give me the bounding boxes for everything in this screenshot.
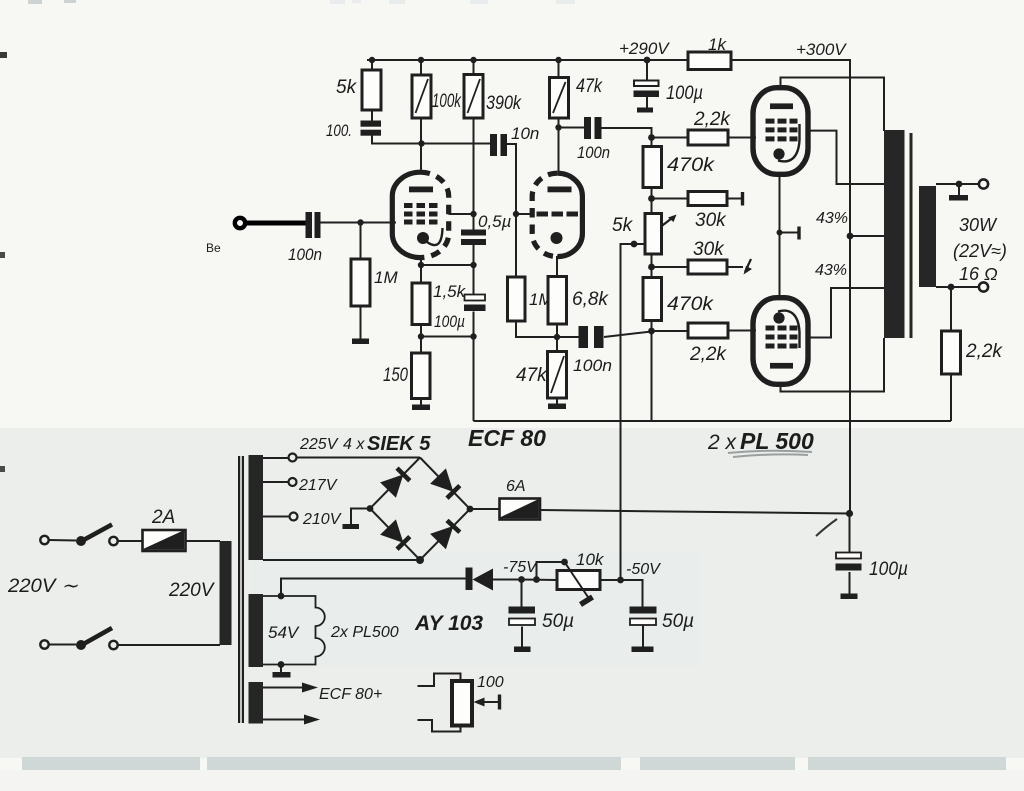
wire 100u1 bottom down to ground bus bbox=[473, 312, 475, 422]
wire hum pot bottom lead bbox=[418, 720, 461, 732]
wire bridge left to chassis bbox=[351, 509, 370, 525]
wire PL500 V4 anode to transformer bottom bbox=[781, 338, 885, 392]
ground 1M input bbox=[352, 339, 369, 345]
node grid V1 bbox=[357, 219, 363, 225]
node chain 30k1 bbox=[648, 195, 655, 202]
potentiometer 100 hum balance bbox=[452, 674, 504, 726]
wire PL500 V4 screen tap 43% bbox=[808, 288, 884, 338]
scan cut-off fragments top edge bbox=[28, 0, 575, 4]
svg-text:30k: 30k bbox=[695, 210, 727, 231]
svg-text:100µ: 100µ bbox=[666, 83, 703, 104]
transformer T1 core bbox=[238, 456, 244, 723]
wire secondary bottom to terminal bbox=[936, 286, 979, 288]
capacitor 100n input bbox=[288, 212, 322, 264]
wire heater lead 2 bbox=[263, 719, 304, 721]
wire 1k to +300V corner down to screen line bbox=[731, 60, 850, 514]
transformer T2 core bbox=[910, 133, 913, 338]
wire mains to switch S2 bbox=[49, 644, 76, 646]
svg-text:100: 100 bbox=[477, 674, 504, 691]
wire V1 grid right to 390k node bbox=[449, 213, 474, 215]
wire S1 to fuse 2A bbox=[118, 540, 143, 542]
capacitor 0,5u bbox=[461, 212, 512, 245]
diode AY103 bbox=[414, 568, 493, 636]
node V1 anode junction bbox=[418, 140, 424, 146]
wire 390k bottom to grid node and 0,5u bbox=[473, 118, 475, 230]
arrow heater 2 bbox=[304, 715, 320, 725]
wire AY103 to -75V node bbox=[493, 579, 521, 581]
ground bridge left bbox=[343, 524, 360, 529]
wire 2,2k bottom to PL500 V4 grid bbox=[728, 330, 756, 332]
ground 54V winding bbox=[273, 672, 291, 678]
wire V1 cathode to 0,5u bottom bbox=[421, 264, 474, 266]
transformer T2 output primary bbox=[884, 130, 905, 338]
svg-text:6,8k: 6,8k bbox=[572, 289, 609, 310]
wire feedback bus bbox=[474, 420, 952, 422]
svg-text:50µ: 50µ bbox=[662, 611, 694, 632]
svg-text:Be: Be bbox=[206, 241, 221, 255]
capacitor 100u cathode bypass bbox=[434, 295, 486, 332]
node cathode junctions bbox=[418, 262, 477, 340]
svg-text:2,2k: 2,2k bbox=[693, 109, 731, 130]
wire 54V bottom ground stub bbox=[280, 665, 282, 673]
capacitor 100u supply electrolytic bbox=[634, 81, 704, 113]
wire PL500 V3 anode to transformer top bbox=[781, 78, 885, 132]
wire 100k stem bbox=[420, 60, 422, 75]
svg-text:47k: 47k bbox=[516, 365, 548, 386]
svg-text:100.: 100. bbox=[326, 121, 352, 140]
tube V4 PL500 lower bbox=[753, 298, 808, 385]
resistor 2,2k grid V3 bbox=[688, 109, 731, 145]
potentiometer 5k balance bbox=[612, 214, 677, 255]
resistor 30k lower bbox=[688, 239, 752, 275]
svg-text:6A: 6A bbox=[506, 478, 526, 495]
svg-text:217V: 217V bbox=[298, 477, 338, 494]
svg-text:ECF 80+: ECF 80+ bbox=[319, 686, 382, 703]
wire 1M2 bottom to junction bbox=[516, 321, 557, 337]
node chain bottom bbox=[648, 328, 655, 335]
tube V3 PL500 upper bbox=[753, 88, 808, 175]
node +290V bbox=[619, 39, 670, 63]
switch S2 mains lower bbox=[40, 628, 117, 650]
node bridge corners bbox=[367, 505, 474, 564]
wire splitter chain vertical segments bbox=[651, 188, 653, 214]
svg-text:+300V: +300V bbox=[796, 40, 847, 59]
diode D3 left-bottom arm bbox=[380, 519, 403, 543]
tube V2 ECF80 triode section bbox=[532, 173, 582, 256]
wire 47k2 to ground bar bbox=[556, 398, 558, 404]
svg-text:43%: 43% bbox=[816, 210, 848, 227]
svg-text:30W: 30W bbox=[959, 215, 998, 235]
terminal output bottom bbox=[979, 282, 988, 291]
resistor 2,2k feedback bbox=[942, 331, 1004, 374]
wire 1M input stem bbox=[360, 223, 362, 260]
wire 150 to ground bar bbox=[420, 399, 422, 405]
wire V1 cathode down bbox=[420, 258, 422, 284]
wire PL500 V3 screen tap 43% bbox=[808, 131, 884, 184]
svg-text:390k: 390k bbox=[486, 93, 522, 114]
svg-text:4 x: 4 x bbox=[343, 436, 365, 453]
svg-text:43%: 43% bbox=[815, 262, 847, 279]
ground 150 bbox=[412, 405, 430, 411]
capacitor 100u boost bbox=[836, 553, 909, 600]
fuse 2A bbox=[143, 507, 186, 551]
wire input coupling to V1 grid bbox=[321, 222, 397, 224]
diode D1 left-top arm bbox=[380, 474, 403, 497]
wire hum pot wiper tail bbox=[483, 701, 499, 703]
node rail junctions bbox=[369, 57, 562, 63]
wire 390k stem bbox=[473, 60, 475, 75]
wire chain node to 2,2k top bbox=[652, 137, 689, 139]
wire V2 cathode to 6,8k bbox=[556, 256, 558, 277]
wire PL500 common cathodes bbox=[779, 174, 781, 298]
svg-text:1M: 1M bbox=[374, 268, 398, 287]
svg-text:2x PL500: 2x PL500 bbox=[330, 624, 399, 641]
capacitor 10n bbox=[490, 124, 539, 156]
wire 30k1 end tick lead bbox=[727, 198, 741, 200]
resistor 5k bbox=[336, 70, 381, 110]
wire secondary ground stub bbox=[958, 184, 960, 195]
pen mark annotation bbox=[816, 519, 837, 536]
wire 2,2k fb to feedback bus bbox=[950, 374, 952, 421]
capacitor 100n feedback lower bbox=[573, 326, 612, 375]
wire V2 anode stem bbox=[558, 171, 559, 173]
svg-text:1,5k: 1,5k bbox=[433, 282, 467, 301]
wire 100 cap to anode node line bbox=[372, 136, 490, 144]
node +300V centre tap bbox=[847, 233, 854, 240]
wire cathode ground tee bbox=[780, 232, 798, 234]
svg-text:2,2k: 2,2k bbox=[965, 341, 1003, 362]
node 390k grid junction bbox=[470, 211, 476, 217]
svg-text:+290V: +290V bbox=[619, 39, 670, 58]
svg-text:2 x: 2 x bbox=[707, 431, 738, 454]
input terminal Be bbox=[206, 218, 306, 255]
wire 30k2 end lead bbox=[727, 266, 743, 268]
transformer T1 54V winding bbox=[249, 593, 325, 668]
wire +290V top rail bbox=[367, 59, 688, 61]
resistor 100k bbox=[412, 75, 462, 118]
wire 54V top to AY103 bbox=[281, 579, 466, 597]
wire 100k bottom to V1 anode bbox=[420, 118, 422, 172]
svg-text:SIEK 5: SIEK 5 bbox=[367, 433, 431, 455]
svg-text:210V: 210V bbox=[302, 511, 342, 528]
wire -75V node to 10k left bbox=[521, 579, 557, 582]
terminal 210V bbox=[290, 511, 342, 528]
wire 225V to bridge top bbox=[297, 457, 421, 459]
resistor 390k bbox=[464, 75, 522, 119]
svg-text:5k: 5k bbox=[336, 77, 358, 98]
wire heater lead 1 bbox=[263, 687, 302, 689]
wire chain node to 30k2 bbox=[652, 266, 689, 268]
wire 0,5u bottom segment bbox=[473, 245, 475, 295]
fuse 6A bbox=[500, 478, 541, 520]
svg-text:100µ: 100µ bbox=[869, 559, 908, 580]
wire 1,5k bottom junction row bbox=[420, 325, 422, 354]
wire 6,8k bottom junction bbox=[556, 324, 558, 352]
wire +300V centre tap bbox=[850, 235, 884, 237]
svg-text:5k: 5k bbox=[612, 215, 634, 236]
tube V1 ECF80 pentode section bbox=[392, 172, 448, 257]
wire fuse 2A to primary bbox=[186, 540, 221, 542]
diode D2 top-right arm bbox=[430, 468, 453, 492]
wire 10k right to -50V node bbox=[600, 580, 643, 607]
node 6,8k bottom junction bbox=[554, 334, 560, 340]
wire 100n2 to splitter chain bbox=[604, 332, 652, 338]
node chain 30k2 bbox=[648, 264, 655, 271]
svg-text:2,2k: 2,2k bbox=[689, 344, 727, 365]
svg-text:220V ∼: 220V ∼ bbox=[7, 576, 78, 597]
wire 10k wiper strap bbox=[537, 562, 565, 580]
wire S2 to primary bottom bbox=[118, 644, 221, 646]
wire secondary top to output terminal bbox=[936, 183, 979, 185]
svg-text:1k: 1k bbox=[708, 35, 727, 54]
wire 16ohm node to 2,2k fb bbox=[950, 287, 952, 331]
transformer T2 secondary bbox=[919, 186, 936, 287]
diode D4 bottom-right arm bbox=[430, 526, 453, 549]
transformer T1 primary winding bbox=[168, 541, 232, 645]
switch S1 mains upper bbox=[40, 525, 117, 547]
wire 2,2k top to PL500 V3 grid bbox=[728, 137, 756, 139]
rectifier bridge 4x SIEK5 bbox=[370, 458, 470, 561]
wire 225V tap bbox=[263, 457, 288, 459]
wire +290V node stem to 100u bbox=[646, 60, 648, 81]
svg-text:54V: 54V bbox=[268, 623, 300, 642]
resistor 47k anode V2 bbox=[550, 76, 604, 118]
svg-text:2A: 2A bbox=[151, 507, 175, 528]
svg-text:225V: 225V bbox=[299, 436, 339, 453]
terminal 217V bbox=[289, 477, 338, 494]
wire reservoir node to 100u2 bbox=[849, 514, 851, 553]
svg-text:470k: 470k bbox=[667, 155, 716, 176]
wire 210V tap bbox=[263, 516, 290, 518]
svg-text:16 Ω: 16 Ω bbox=[959, 264, 998, 284]
resistor 1,5k cathode bbox=[412, 282, 467, 325]
svg-text:100k: 100k bbox=[432, 91, 462, 112]
svg-text:50µ: 50µ bbox=[542, 611, 574, 632]
svg-text:220V: 220V bbox=[168, 580, 216, 601]
svg-text:100µ: 100µ bbox=[434, 312, 465, 331]
label 2 x PL 500 bbox=[707, 428, 814, 457]
svg-text:47k: 47k bbox=[576, 76, 603, 97]
wire bridge bottom to hv winding bbox=[263, 559, 420, 561]
resistor 47k V2 cathode lower bbox=[516, 352, 567, 399]
wire 47k bottom to V2 anode bbox=[558, 118, 560, 172]
transformer T1 HV secondary bbox=[249, 455, 264, 560]
wires/ink style bbox=[321, 60, 851, 514]
scan edge marks left border bbox=[0, 52, 7, 472]
wire 10n right to V2 grid line bbox=[507, 144, 516, 277]
svg-text:30k: 30k bbox=[693, 239, 725, 260]
capacitor 50u bias 1 bbox=[509, 607, 575, 653]
svg-text:-75V: -75V bbox=[503, 559, 538, 576]
ground 47k bbox=[548, 404, 566, 410]
node V2 grid junction bbox=[513, 211, 519, 217]
resistor 470k lower bbox=[643, 278, 715, 321]
wire 6A line to reservoir node bbox=[540, 510, 850, 514]
resistor 30k upper bbox=[688, 192, 743, 232]
wire chain node to 2,2k bottom bbox=[652, 330, 689, 332]
wire 100n to splitter chain bbox=[602, 128, 652, 147]
svg-text:100n: 100n bbox=[577, 143, 610, 162]
svg-text:10n: 10n bbox=[511, 124, 539, 143]
resistor 470k upper bbox=[643, 147, 716, 188]
wire 5k pot wiper to bias line bbox=[621, 244, 646, 580]
wire 217V tap bbox=[263, 481, 288, 483]
transformer T1 heater winding bbox=[249, 682, 264, 724]
capacitor 50u bias 2 bbox=[630, 607, 695, 653]
svg-text:0,5µ: 0,5µ bbox=[478, 212, 512, 231]
wire 47k stem bbox=[558, 60, 560, 78]
wire V2 grid to tube bbox=[516, 213, 533, 215]
wire V2 anode node to 100n bbox=[559, 127, 585, 129]
svg-text:100n: 100n bbox=[573, 356, 612, 375]
wire chain node to 30k1 bbox=[652, 198, 689, 200]
label 30W 22V 16ohm bbox=[953, 215, 1007, 284]
svg-text:AY 103: AY 103 bbox=[414, 612, 483, 635]
wire hum pot top lead bbox=[418, 674, 461, 687]
node -50V bbox=[617, 561, 661, 583]
resistor 1M grid leak bbox=[351, 259, 398, 306]
terminal 225V bbox=[289, 433, 432, 462]
svg-text:150: 150 bbox=[383, 365, 408, 386]
resistor 150 bbox=[383, 353, 430, 399]
capacitor 100pF grid1 bbox=[326, 121, 381, 141]
node chain top bbox=[648, 134, 655, 141]
wire 50u2 stem bbox=[642, 626, 644, 647]
node -75V bbox=[503, 559, 538, 583]
resistor 6,8k cathode V2 bbox=[548, 277, 609, 325]
node 10k strap bbox=[533, 559, 568, 583]
node boost reservoir bbox=[846, 510, 853, 517]
resistor 1k supply bbox=[688, 35, 731, 70]
wire bridge right to 6A fuse bbox=[470, 508, 499, 510]
wire junction to 100n2 bbox=[557, 336, 579, 338]
potentiometer 10k bias bbox=[557, 550, 605, 605]
terminal output top bbox=[979, 179, 988, 188]
resistor 2,2k grid V4 bbox=[688, 323, 728, 365]
svg-text:-50V: -50V bbox=[626, 561, 661, 578]
wire mains to switch S1 bbox=[49, 539, 76, 542]
node secondary ground bbox=[956, 181, 963, 188]
node cathode tee bbox=[777, 230, 783, 236]
svg-text:470k: 470k bbox=[667, 294, 715, 315]
arrow heater 1 bbox=[302, 683, 318, 693]
capacitor 100n coupling V2 out bbox=[577, 117, 610, 162]
resistor 1M V2 grid bbox=[508, 277, 554, 321]
ground secondary bbox=[949, 195, 968, 201]
node 16 ohm junction bbox=[948, 284, 955, 291]
svg-text:100n: 100n bbox=[288, 245, 322, 264]
node V2 anode junction bbox=[555, 124, 561, 130]
svg-text:(22V≈): (22V≈) bbox=[953, 241, 1007, 261]
svg-text:10k: 10k bbox=[576, 550, 605, 569]
wire 5k branch stem bbox=[371, 60, 373, 70]
wire 50u1 stem bbox=[521, 580, 523, 607]
svg-text:ECF 80: ECF 80 bbox=[468, 425, 546, 451]
scan band bottom bbox=[22, 757, 1006, 770]
